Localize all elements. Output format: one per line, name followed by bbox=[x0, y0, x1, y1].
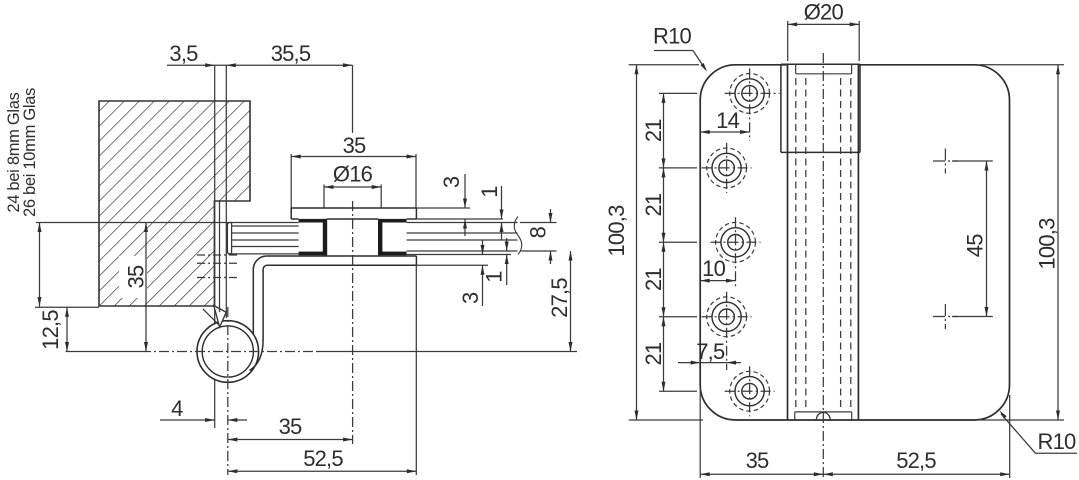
svg-text:1: 1 bbox=[482, 271, 507, 283]
black gasket bushings (section) bbox=[299, 219, 327, 223]
bend arcs to hinge arm bbox=[253, 256, 266, 270]
glass left edge bbox=[231, 223, 233, 254]
svg-text:26 bei 10mm Glas: 26 bei 10mm Glas bbox=[21, 88, 39, 217]
svg-text:R10: R10 bbox=[1038, 429, 1077, 454]
barrel bottom face bbox=[788, 419, 859, 421]
svg-text:21: 21 bbox=[641, 119, 666, 142]
svg-text:8: 8 bbox=[526, 226, 551, 238]
svg-text:Ø16: Ø16 bbox=[333, 162, 373, 187]
hidden bore lines bbox=[795, 78, 797, 412]
dim 35 vertical (over hatch) bbox=[145, 223, 147, 352]
svg-text:35: 35 bbox=[746, 448, 769, 473]
svg-text:35,5: 35,5 bbox=[271, 41, 311, 66]
ext 52,5 right bbox=[415, 265, 417, 475]
svg-text:3,5: 3,5 bbox=[169, 41, 198, 66]
svg-text:21: 21 bbox=[641, 268, 666, 291]
bottom hinge plate bbox=[267, 255, 417, 257]
svg-text:21: 21 bbox=[641, 193, 666, 216]
glass break line bbox=[514, 217, 522, 255]
svg-text:3: 3 bbox=[458, 292, 483, 304]
svg-text:4: 4 bbox=[171, 396, 183, 421]
pivot horizontal centerline bbox=[66, 351, 141, 353]
svg-text:100,3: 100,3 bbox=[604, 205, 629, 257]
screw hole 3 bbox=[728, 235, 744, 251]
pivot ring inner circle bbox=[202, 326, 253, 377]
collar top notch bbox=[796, 73, 852, 75]
glass panel lines right segment bbox=[407, 222, 518, 224]
svg-text:7,5: 7,5 bbox=[696, 339, 725, 364]
dim chain 21 bbox=[663, 93, 665, 391]
svg-text:45: 45 bbox=[963, 234, 988, 257]
ext/hinge plate face bbox=[225, 65, 227, 318]
white box behind vertical 35 text bbox=[119, 256, 147, 298]
ext right bbox=[1009, 395, 1011, 478]
svg-text:100,3: 100,3 bbox=[1035, 218, 1060, 270]
svg-text:21: 21 bbox=[641, 342, 666, 365]
ext line 24/26 + glass top bbox=[36, 222, 299, 224]
svg-text:52,5: 52,5 bbox=[896, 448, 936, 473]
svg-text:14: 14 bbox=[716, 108, 739, 133]
ext to 21-chain bbox=[659, 167, 697, 169]
hinge wall plate rear line bbox=[219, 201, 221, 312]
wall bottom ext bbox=[35, 306, 99, 308]
svg-text:3: 3 bbox=[439, 176, 464, 188]
screw hole 4 bbox=[719, 309, 735, 325]
ext 35,5 right bbox=[352, 65, 354, 133]
ext/wall face line bbox=[214, 65, 216, 428]
svg-text:12,5: 12,5 bbox=[38, 310, 63, 350]
hinge arm verticals bbox=[252, 270, 254, 335]
svg-text:35: 35 bbox=[279, 414, 302, 439]
rubber end cap bbox=[227, 223, 231, 254]
svg-text:1: 1 bbox=[477, 186, 502, 198]
barrel centerline bbox=[822, 53, 824, 478]
screw hole 5 bbox=[742, 383, 758, 399]
screw hole 2 bbox=[719, 160, 735, 176]
dim 3,5 and 35,5 top bbox=[167, 64, 353, 66]
ext to 21-chain bbox=[659, 390, 697, 392]
centerline of glass fitting bbox=[352, 201, 354, 444]
svg-text:R10: R10 bbox=[653, 24, 692, 49]
right view: glass leaf outline bbox=[858, 65, 1009, 420]
pivot pin dome bbox=[816, 412, 830, 419]
ext lines right of stack bbox=[416, 207, 470, 209]
wedge (arm attachment detail) bbox=[214, 306, 226, 328]
pivot vertical centerline bbox=[227, 307, 229, 475]
drill center marks bbox=[933, 160, 958, 162]
dim Ø16 bbox=[324, 186, 381, 188]
ext to 21-chain bbox=[659, 92, 697, 94]
dim 35 (clamp plate width) bbox=[291, 156, 416, 158]
screw axis dash-dot marks bbox=[197, 254, 237, 256]
svg-text:35: 35 bbox=[343, 133, 366, 158]
svg-text:52,5: 52,5 bbox=[303, 446, 343, 471]
screw hole 1 bbox=[742, 86, 758, 102]
ext to 21-chain bbox=[659, 316, 697, 318]
wall block (hatched section) bbox=[99, 101, 250, 306]
svg-text:10: 10 bbox=[702, 256, 725, 281]
pivot ring outer circle bbox=[197, 321, 259, 383]
hinge barrel edges bbox=[787, 65, 789, 420]
ext to 21-chain bbox=[659, 241, 697, 243]
dim 24/26 vertical bbox=[39, 223, 41, 307]
ext left bbox=[699, 388, 701, 478]
clamp collar bbox=[781, 63, 860, 65]
barrel bottom insert bbox=[795, 411, 852, 413]
svg-text:27,5: 27,5 bbox=[547, 278, 572, 318]
svg-text:35: 35 bbox=[124, 265, 149, 288]
top clamp plate bbox=[291, 207, 416, 209]
right view: wall leaf outline bbox=[700, 65, 788, 420]
svg-text:Ø20: Ø20 bbox=[804, 0, 844, 25]
